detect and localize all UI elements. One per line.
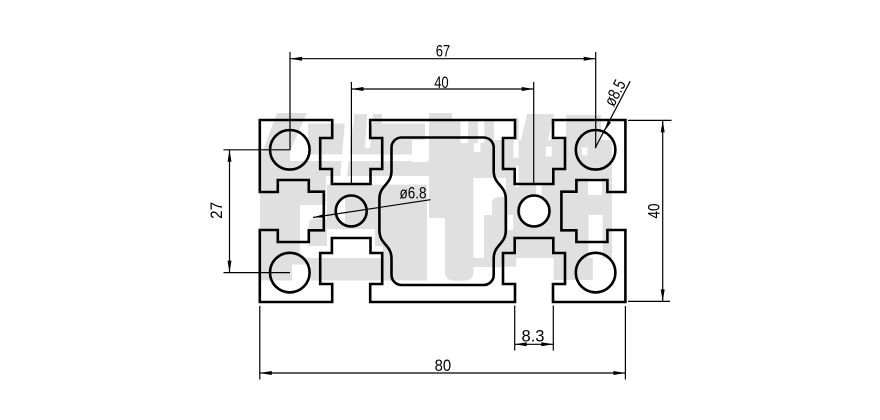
hole-TR circle d8.5 (576, 130, 616, 170)
svg-text:ø6.8: ø6.8 (400, 184, 427, 203)
leader dia6.8 (313, 200, 431, 218)
hole-BR circle d8.5 (576, 253, 616, 293)
watermark right leg column (452, 178, 474, 218)
67 dim extension lines (289, 52, 291, 150)
arrowheads (290, 57, 302, 61)
watermark left char slash (260, 113, 307, 158)
watermark right char body (494, 118, 612, 215)
watermark circle patch (272, 250, 292, 266)
svg-text:80: 80 (435, 356, 452, 375)
80 dim line (260, 372, 626, 374)
svg-text:67: 67 (436, 41, 451, 60)
watermark top bar (308, 124, 425, 155)
watermark right char top wedge (521, 114, 554, 140)
svg-text:40: 40 (644, 204, 663, 219)
40 right dim extension lines (628, 119, 672, 121)
watermark left slot blob (277, 176, 326, 205)
leader dia8.5 (595, 81, 630, 148)
watermark top stubs (354, 114, 367, 124)
svg-text:8.3: 8.3 (522, 327, 545, 346)
watermark second bar (261, 161, 432, 176)
watermark leg block (383, 238, 427, 259)
central cavity (379, 138, 505, 286)
hole-TL circle d8.5 (270, 130, 310, 170)
hole-CR circle d6.8 (519, 196, 550, 227)
27 dim line (229, 150, 231, 273)
watermark mid block (327, 185, 427, 229)
watermark white slits (340, 114, 354, 176)
40 right dim line (662, 120, 664, 301)
hole-CL circle d6.8 (336, 196, 367, 227)
watermark left char vertical (260, 152, 278, 281)
80 dim extension lines (259, 306, 261, 380)
profile outer outline with T-slots (260, 120, 626, 302)
67 dim line (290, 58, 596, 60)
8.3 dim line (515, 343, 554, 345)
hole-BL circle d8.5 (270, 253, 310, 293)
8.3 dim extension lines (514, 306, 516, 351)
svg-text:40: 40 (434, 73, 449, 92)
watermark right inner column (452, 121, 494, 178)
svg-text:27: 27 (207, 202, 226, 219)
40 top dim extension lines (350, 82, 352, 184)
27 dim extension lines (224, 149, 291, 151)
watermark central vertical (429, 113, 452, 218)
40 top dim line (351, 88, 533, 90)
watermark left bottom band (259, 258, 427, 281)
